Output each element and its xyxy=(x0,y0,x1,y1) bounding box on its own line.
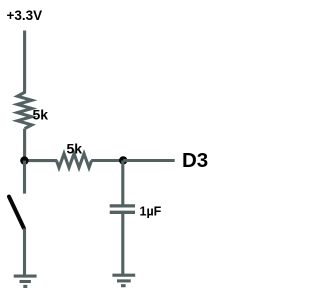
capacitor C1 value label 1µF xyxy=(140,204,162,218)
wire node B to pin D3 xyxy=(123,159,175,162)
svg-text:+3.3V: +3.3V xyxy=(7,8,43,23)
wire node A down to switch S1 xyxy=(23,161,26,194)
svg-text:D3: D3 xyxy=(182,149,208,172)
resistor R2 value label 5k xyxy=(67,141,83,157)
wire node A to resistor R2 (horizontal) xyxy=(23,159,57,162)
ground symbol left xyxy=(14,276,37,286)
resistor R1 (vertical zigzag) xyxy=(17,92,31,128)
capacitor C1 plates xyxy=(110,206,135,212)
wire from resistor R1 to node A xyxy=(23,129,26,162)
svg-text:5k: 5k xyxy=(33,107,49,123)
svg-text:1µF: 1µF xyxy=(140,204,162,218)
power rail label +3.3V xyxy=(7,8,43,23)
switch S1 lever (open) xyxy=(9,197,24,228)
svg-text:5k: 5k xyxy=(67,141,83,157)
wire resistor R2 to node B xyxy=(91,159,123,162)
wire switch S1 to ground xyxy=(23,228,26,276)
resistor R2 (horizontal zigzag) xyxy=(57,154,92,168)
wire from +3.3V rail down to resistor R1 xyxy=(23,31,26,94)
resistor R1 value label 5k xyxy=(33,107,49,123)
net label D3 xyxy=(182,149,208,172)
node A junction dot xyxy=(20,156,28,164)
node B junction dot xyxy=(119,156,127,164)
wire node B down to capacitor C1 xyxy=(121,160,124,206)
ground symbol right xyxy=(112,275,135,286)
wire capacitor C1 to ground xyxy=(121,212,124,275)
